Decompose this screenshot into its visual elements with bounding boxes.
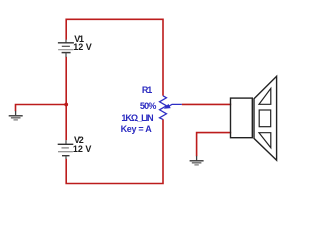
wire: R1 wiper to speaker top terminal: [182, 103, 231, 105]
svg-text:12 V: 12 V: [73, 144, 92, 154]
speaker horn top triangle vane: [259, 88, 271, 104]
potentiometer R1 wiper lead: [167, 104, 182, 107]
svg-text:12 V: 12 V: [73, 42, 92, 52]
wire: speaker bottom terminal to ground GND2: [197, 133, 232, 157]
speaker horn middle rectangle vane: [259, 110, 271, 127]
wire: V2 minus down, across bottom, up to R1 pin 2: [66, 119, 163, 183]
battery V1: [58, 40, 74, 58]
wire: V1 plus up, across top, down to R1 pin 1: [66, 19, 163, 96]
svg-text:R1: R1: [142, 85, 152, 95]
ground GND2: [190, 156, 204, 165]
wire: V1 minus down to junction and on to V2 plus: [65, 57, 67, 140]
potentiometer R1 zigzag body: [160, 96, 167, 120]
svg-text:Key = A: Key = A: [121, 124, 153, 134]
speaker horn outline: [254, 76, 277, 160]
potentiometer R1 wiper arrowhead: [164, 104, 171, 109]
svg-text:50%: 50%: [140, 101, 157, 111]
ground GND1: [9, 111, 23, 120]
wire: junction to ground GND1: [16, 105, 67, 112]
speaker driver rectangle: [231, 98, 253, 138]
junction dot at node between V1 and V2: [64, 103, 68, 107]
svg-text:1KΩ_LIN: 1KΩ_LIN: [121, 113, 153, 123]
speaker horn bottom triangle vane: [259, 133, 271, 148]
battery V2: [58, 140, 74, 159]
